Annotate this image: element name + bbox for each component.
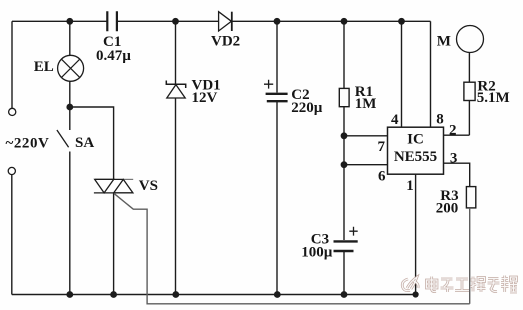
wire branch to triac bbox=[70, 107, 114, 179]
wire top rail bbox=[12, 20, 431, 22]
logo watermark core bbox=[402, 276, 517, 293]
wire left vertical lower bbox=[11, 175, 13, 295]
svg-text:M: M bbox=[437, 34, 451, 50]
svg-text:NE555: NE555 bbox=[394, 149, 437, 165]
node junction pin4 top bbox=[399, 19, 404, 24]
wire VD1 column lower bbox=[175, 98, 177, 295]
node junction C2 bottom bbox=[275, 292, 280, 297]
wire bottom rail bbox=[12, 294, 416, 296]
node junction C3 bottom bbox=[341, 292, 346, 297]
node AC terminal upper bbox=[9, 108, 16, 115]
wire pin7 bbox=[344, 135, 388, 137]
wire R3 to gate rail bbox=[469, 208, 471, 304]
wire pin4 bbox=[401, 21, 403, 127]
node AC terminal lower bbox=[8, 167, 15, 174]
switch SA bbox=[57, 107, 70, 295]
svg-text:100µ: 100µ bbox=[301, 245, 333, 261]
resistor R2 bbox=[464, 82, 475, 100]
svg-text:1: 1 bbox=[406, 178, 414, 194]
wire left vertical upper bbox=[11, 21, 13, 108]
svg-text:4: 4 bbox=[391, 112, 399, 128]
svg-text:IC: IC bbox=[407, 132, 424, 148]
wire pin1 bbox=[415, 174, 417, 294]
svg-text:220µ: 220µ bbox=[291, 100, 323, 116]
wire motor to R2 bbox=[468, 53, 470, 83]
svg-text:1M: 1M bbox=[355, 96, 377, 112]
node junction VD1 top bbox=[173, 19, 178, 24]
capacitor C1 bbox=[107, 11, 117, 31]
wire triac gate bbox=[114, 193, 470, 303]
motor M bbox=[457, 26, 484, 53]
node junction pin6 bbox=[341, 162, 346, 167]
svg-text:SA: SA bbox=[75, 135, 94, 151]
node junction C2 top bbox=[274, 19, 279, 24]
logo watermark outline bbox=[402, 276, 517, 293]
wire C2 column lower bbox=[276, 101, 278, 294]
resistor R1 bbox=[339, 88, 349, 106]
svg-text:2: 2 bbox=[449, 122, 457, 138]
svg-text:8: 8 bbox=[436, 112, 444, 128]
node junction SA bottom bbox=[67, 292, 72, 297]
transistor Q1 triac VS bbox=[94, 179, 133, 193]
node junction pin7 bbox=[341, 133, 346, 138]
svg-text:5.1M: 5.1M bbox=[477, 90, 510, 106]
svg-text:VS: VS bbox=[139, 178, 158, 194]
wire R2 to pin2 bbox=[468, 101, 470, 136]
resistor R3 bbox=[466, 187, 475, 208]
node junction SA/VS bbox=[67, 104, 72, 109]
node junction top EL bbox=[67, 19, 72, 24]
wire EL to node bbox=[69, 81, 71, 107]
wire C3 column lower bbox=[343, 251, 345, 295]
node junction VD1 bottom bbox=[173, 292, 178, 297]
svg-text:3: 3 bbox=[450, 151, 458, 167]
svg-text:~220V: ~220V bbox=[6, 135, 50, 151]
node junction pin1 bottom bbox=[413, 292, 418, 297]
op-amp U1 IC NE555 box bbox=[388, 127, 444, 174]
wire triac anode lower bbox=[113, 193, 115, 295]
svg-text:12V: 12V bbox=[192, 90, 218, 106]
node junction R1 top bbox=[341, 19, 346, 24]
svg-text:7: 7 bbox=[377, 139, 385, 155]
wire C2 column upper bbox=[276, 21, 278, 92]
wire EL drop bbox=[69, 21, 71, 55]
wire R1 to C3 bbox=[343, 107, 345, 240]
diode VD1 zener bbox=[166, 81, 185, 99]
svg-text:6: 6 bbox=[378, 169, 386, 185]
wire R1 column upper bbox=[343, 21, 345, 88]
capacitor C2 bbox=[264, 80, 288, 101]
svg-text:200: 200 bbox=[436, 200, 459, 216]
diode VD2 bbox=[219, 12, 232, 31]
wire pin8 bbox=[430, 21, 432, 127]
wire pin3 bbox=[444, 163, 470, 186]
wire pin2 bbox=[444, 134, 470, 136]
lamp EL bbox=[58, 55, 84, 81]
svg-text:VD2: VD2 bbox=[211, 33, 240, 49]
node junction triac bottom bbox=[111, 292, 116, 297]
wire pin6 bbox=[344, 164, 388, 166]
wire VD1 column upper bbox=[175, 21, 177, 84]
svg-text:EL: EL bbox=[34, 59, 54, 75]
svg-text:0.47µ: 0.47µ bbox=[96, 48, 131, 64]
capacitor C3 bbox=[334, 227, 358, 251]
